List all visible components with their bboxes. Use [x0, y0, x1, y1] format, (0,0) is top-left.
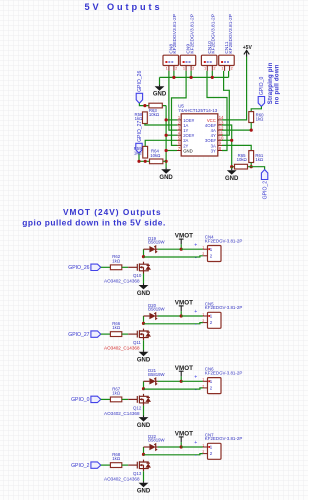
net flag GPIO_26 (24V section) — [91, 264, 101, 270]
wire VMOT node to connector pin 1 — [181, 248, 203, 250]
ground symbol (bus) — [159, 77, 161, 85]
junction — [180, 314, 183, 317]
svg-text:GND: GND — [225, 176, 239, 182]
wire — [101, 333, 111, 335]
svg-text:GND: GND — [159, 175, 173, 181]
svg-text:2: 2 — [202, 384, 204, 388]
svg-text:KF2EDGV-3.81-2P: KF2EDGV-3.81-2P — [205, 370, 243, 375]
resistor R68 1k — [110, 463, 121, 468]
junction — [142, 453, 145, 456]
ground symbol (Q13 source) — [143, 481, 145, 483]
net flag GPIO_2 (5V section) — [251, 167, 264, 170]
wire R59 to 2A — [145, 140, 177, 146]
junction — [180, 445, 183, 448]
ground symbol (Q11 source) — [143, 350, 145, 352]
junction — [250, 165, 253, 168]
wire drain node to connector pin 2 — [144, 323, 203, 324]
svg-text:+5V: +5V — [243, 45, 253, 51]
resistor R65 10k — [232, 166, 252, 168]
svg-text:Q13: Q13 — [133, 471, 142, 476]
wire — [211, 71, 213, 78]
wire — [139, 153, 166, 161]
wire source to ground — [143, 406, 145, 416]
svg-text:KF2EDGV-3.81-2P: KF2EDGV-3.81-2P — [205, 305, 243, 310]
svg-text:2: 2 — [231, 66, 233, 70]
svg-text:1: 1 — [221, 66, 223, 70]
wire — [101, 464, 111, 466]
diode D20 B5819W — [143, 315, 145, 317]
resistor R62 1k — [110, 265, 121, 270]
svg-text:1: 1 — [204, 66, 206, 70]
svg-text:AO3402_C14368: AO3402_C14368 — [104, 346, 140, 351]
wire diode to VMOT node — [158, 248, 182, 250]
svg-text:1: 1 — [202, 312, 204, 316]
svg-text:Strapping pin: Strapping pin — [268, 62, 274, 104]
junction — [172, 76, 175, 79]
svg-text:Q10: Q10 — [133, 273, 142, 278]
svg-text:GND: GND — [137, 423, 151, 429]
wire diode to VMOT node — [158, 315, 182, 317]
svg-text:2: 2 — [175, 66, 177, 70]
wire source to ground — [143, 274, 145, 284]
svg-text:2: 2 — [202, 319, 204, 323]
net flag GPIO_0 (24V section) — [91, 396, 101, 402]
svg-text:AO3402_C14368: AO3402_C14368 — [104, 279, 140, 284]
wire source to ground — [143, 340, 145, 350]
svg-text:Q12: Q12 — [133, 405, 142, 410]
junction — [165, 118, 168, 121]
svg-text:1: 1 — [202, 443, 204, 447]
wire drain up to diode node — [143, 381, 145, 388]
svg-text:GPIO_2: GPIO_2 — [71, 463, 90, 469]
svg-text:GND: GND — [137, 358, 151, 364]
wire 4OE# to 3OE# — [222, 125, 232, 167]
svg-text:Q11: Q11 — [133, 340, 142, 345]
svg-text:VMOT: VMOT — [175, 431, 193, 438]
diode D21 B5819W — [143, 380, 145, 382]
resistor R61 1k — [249, 151, 254, 163]
wire drain node to connector pin 2 — [144, 256, 203, 257]
svg-text:-: - — [195, 322, 197, 328]
wire — [122, 333, 128, 335]
svg-text:1kΩ: 1kΩ — [112, 391, 121, 396]
GND bus from connectors — [160, 76, 229, 78]
wire 2OE# to GND rail — [166, 134, 177, 136]
svg-text:AO3402_C14368: AO3402_C14368 — [104, 477, 140, 482]
svg-text:GPIO_26: GPIO_26 — [137, 70, 143, 91]
svg-text:2: 2 — [214, 66, 216, 70]
wire VMOT node to connector pin 1 — [181, 315, 203, 317]
wire CN11 output to 4Y — [222, 71, 229, 135]
junction — [143, 104, 146, 107]
wire — [166, 119, 177, 121]
svg-text:AO3402_C14368: AO3402_C14368 — [104, 411, 140, 416]
junction — [137, 160, 140, 163]
svg-text:2: 2 — [202, 252, 204, 256]
wire — [101, 266, 111, 268]
svg-text:10kΩ: 10kΩ — [149, 112, 160, 117]
ground symbol (Q12 source) — [143, 416, 145, 418]
svg-text:GPIO_2: GPIO_2 — [262, 181, 268, 200]
junction — [180, 380, 183, 383]
connector CN8 KF2EDGV3.81-2P — [163, 55, 179, 65]
svg-text:10kΩ: 10kΩ — [237, 157, 248, 162]
wire drain node to connector pin 2 — [144, 454, 203, 455]
svg-text:GND: GND — [183, 148, 192, 153]
resistor R58 1k — [143, 112, 148, 124]
connector CN11 KF2EDGV3.81-2P — [219, 55, 235, 65]
svg-text:+: + — [194, 309, 197, 315]
diode D22 B5819W — [143, 446, 145, 448]
net flag GPIO_26 — [136, 93, 142, 103]
transistor Q12 AO3402 — [128, 394, 150, 406]
svg-text:+: + — [194, 242, 197, 248]
wire — [173, 71, 175, 78]
svg-text:+: + — [194, 440, 197, 446]
svg-text:GPIO_27: GPIO_27 — [68, 332, 89, 338]
wire — [190, 71, 192, 78]
svg-text:GPIO_26: GPIO_26 — [68, 265, 89, 271]
ground symbol (right) — [231, 167, 233, 169]
transistor Q13 AO3402 — [128, 460, 150, 472]
svg-text:3Y: 3Y — [211, 148, 216, 153]
svg-text:VMOT (24V) Outputs: VMOT (24V) Outputs — [63, 207, 162, 217]
connector CN7 KF2EDGV-3.81-2P — [208, 443, 222, 459]
ground symbol (under U5) — [165, 168, 167, 170]
resistor R63 10k — [149, 103, 162, 108]
junction — [142, 322, 145, 325]
wire CN10 output to 3Y — [207, 71, 227, 151]
wire CN8 output to 1Y — [169, 71, 177, 130]
wire drain up to diode node — [143, 249, 145, 256]
wire drain up to diode node — [143, 447, 145, 454]
resistor R64 10k — [150, 159, 163, 164]
junction — [230, 165, 233, 168]
wire diode to VMOT node — [158, 380, 182, 382]
svg-text:2: 2 — [202, 450, 204, 454]
svg-text:KF2EDGV3.81-2P: KF2EDGV3.81-2P — [172, 14, 178, 54]
svg-text:1: 1 — [202, 246, 204, 250]
wire 3A to R61 — [222, 145, 251, 150]
U5 pin stubs and labels — [177, 119, 181, 121]
wire — [101, 398, 111, 400]
svg-text:-: - — [195, 388, 197, 394]
svg-text:GND: GND — [137, 291, 151, 297]
wire R58 to 1A — [145, 124, 177, 126]
wire +5V rail to VCC pin 14 — [222, 57, 247, 120]
svg-text:GPIO_27: GPIO_27 — [137, 120, 143, 141]
svg-text:GPIO_0: GPIO_0 — [71, 397, 90, 403]
wire CN9 output to 2Y — [172, 71, 187, 145]
ground symbol (Q10 source) — [143, 283, 145, 285]
wire R60 to 4A — [222, 123, 251, 131]
transistor Q11 AO3402 — [128, 329, 150, 341]
connector CN10 KF2EDGV3.81-2P — [201, 55, 217, 65]
junction — [142, 255, 145, 258]
net flag GPIO_2 (24V section) — [91, 462, 101, 468]
svg-text:KF2EDGV-3.81-2P: KF2EDGV-3.81-2P — [205, 238, 243, 243]
wire VMOT node to connector pin 1 — [181, 380, 203, 382]
resistor R67 1k — [110, 397, 121, 402]
svg-text:1kΩ: 1kΩ — [255, 157, 264, 162]
svg-text:B5819W: B5819W — [148, 240, 165, 245]
wire R63 to 1OE# / GND rail — [165, 106, 167, 168]
junction — [144, 160, 147, 163]
svg-text:-: - — [195, 255, 197, 261]
svg-text:1: 1 — [166, 66, 168, 70]
resistor R66 1k — [110, 332, 121, 337]
junction — [230, 139, 233, 142]
wire — [122, 398, 128, 400]
svg-text:VMOT: VMOT — [175, 365, 193, 372]
connector CN4 KF2EDGV-3.81-2P — [208, 246, 222, 262]
svg-text:B5819W: B5819W — [148, 372, 165, 377]
svg-text:5V Outputs: 5V Outputs — [85, 2, 163, 12]
resistor R59 1k — [143, 146, 148, 158]
wire VMOT node to connector pin 1 — [181, 446, 203, 448]
IC U5 74AHCT125 quad buffer — [181, 114, 218, 156]
svg-text:-: - — [195, 453, 197, 459]
junction — [190, 76, 193, 79]
junction — [211, 76, 214, 79]
svg-text:VMOT: VMOT — [175, 300, 193, 307]
svg-text:1kΩ: 1kΩ — [112, 258, 121, 263]
wire — [228, 71, 230, 78]
svg-text:VMOT: VMOT — [175, 233, 193, 240]
junction — [165, 134, 168, 137]
svg-text:B5819W: B5819W — [148, 438, 165, 443]
wire drain node to connector pin 2 — [144, 388, 203, 389]
svg-text:KF2EDGV3.81-2P: KF2EDGV3.81-2P — [228, 14, 234, 54]
svg-text:1kΩ: 1kΩ — [112, 456, 121, 461]
wire drain up to diode node — [143, 316, 145, 323]
resistor R60 1k — [249, 112, 254, 123]
svg-text:+: + — [194, 374, 197, 380]
junction — [165, 160, 168, 163]
svg-text:GPIO_0: GPIO_0 — [259, 77, 265, 96]
svg-text:GND: GND — [137, 489, 151, 495]
wire source to ground — [143, 471, 145, 481]
junction — [165, 149, 168, 152]
transistor Q10 AO3402 — [128, 262, 150, 274]
svg-text:1kΩ: 1kΩ — [112, 325, 121, 330]
svg-text:KF2EDGV3.81-2P: KF2EDGV3.81-2P — [211, 14, 217, 54]
wire — [122, 464, 128, 466]
net flag GPIO_0 — [258, 97, 264, 107]
svg-text:KF2EDGV3.81-2P: KF2EDGV3.81-2P — [189, 14, 195, 54]
wire diode to VMOT node — [158, 446, 182, 448]
wire — [250, 163, 252, 167]
junction — [250, 129, 253, 132]
net flag GPIO_27 (24V section) — [91, 331, 101, 337]
svg-text:10kΩ: 10kΩ — [150, 153, 161, 158]
wire — [122, 266, 128, 268]
connector CN6 KF2EDGV-3.81-2P — [208, 378, 222, 394]
svg-text:gpio pulled down in the 5V sid: gpio pulled down in the 5V side. — [22, 217, 166, 227]
connector CN9 KF2EDGV3.81-2P — [180, 55, 196, 65]
svg-text:1kΩ: 1kΩ — [135, 116, 144, 121]
svg-text:KF2EDGV-3.81-2P: KF2EDGV-3.81-2P — [205, 436, 243, 441]
junction — [142, 387, 145, 390]
svg-text:1: 1 — [183, 66, 185, 70]
svg-text:74AHCT125T14-13: 74AHCT125T14-13 — [178, 108, 218, 113]
svg-text:GND: GND — [153, 92, 167, 98]
svg-text:B5819W: B5819W — [148, 307, 165, 312]
junction — [180, 248, 183, 251]
wire GND pin to rail — [166, 150, 177, 152]
net flag GPIO_27 — [136, 143, 142, 153]
svg-text:1: 1 — [202, 378, 204, 382]
diode D19 B5819W — [143, 248, 145, 250]
svg-text:1kΩ: 1kΩ — [134, 150, 143, 155]
wire — [139, 103, 166, 105]
svg-text:no pull down: no pull down — [274, 64, 280, 104]
svg-text:1kΩ: 1kΩ — [256, 117, 265, 122]
svg-text:2: 2 — [192, 66, 194, 70]
wire — [251, 106, 261, 111]
wire 3OE# stub — [222, 139, 232, 141]
connector CN5 KF2EDGV-3.81-2P — [208, 312, 222, 328]
